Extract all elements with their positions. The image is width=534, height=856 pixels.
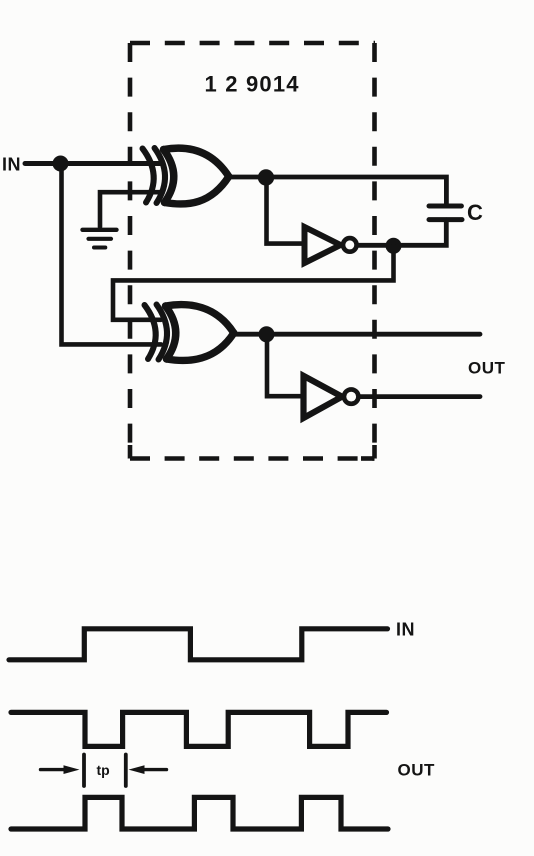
svg-text:IN: IN <box>396 620 415 640</box>
svg-text:IN: IN <box>2 155 21 175</box>
svg-text:C: C <box>467 200 483 225</box>
svg-text:tp: tp <box>97 762 110 778</box>
svg-text:OUT: OUT <box>468 359 506 378</box>
svg-text:OUT: OUT <box>398 761 436 780</box>
svg-text:1 2 9014: 1 2 9014 <box>205 72 300 97</box>
